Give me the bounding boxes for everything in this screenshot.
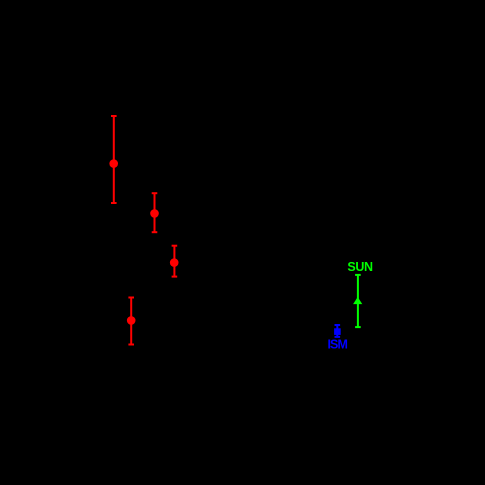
ISM error bar (blue) (335, 325, 341, 337)
SUN marker (green triangle) (353, 297, 362, 304)
svg-text:ISM: ISM (328, 338, 348, 352)
SUN error bar (green) (355, 275, 361, 327)
red data point 4 error bar (128, 298, 134, 345)
red data point 2 marker (150, 209, 159, 218)
svg-text:SUN: SUN (347, 260, 373, 274)
red data point 2 error bar (152, 193, 158, 232)
red data point 1 error bar (111, 116, 117, 203)
red data point 4 marker (127, 316, 136, 325)
red data point 3 marker (170, 258, 179, 267)
red data point 1 marker (109, 159, 118, 168)
ISM marker (blue square) (334, 328, 341, 335)
red data point 3 error bar (172, 246, 178, 277)
